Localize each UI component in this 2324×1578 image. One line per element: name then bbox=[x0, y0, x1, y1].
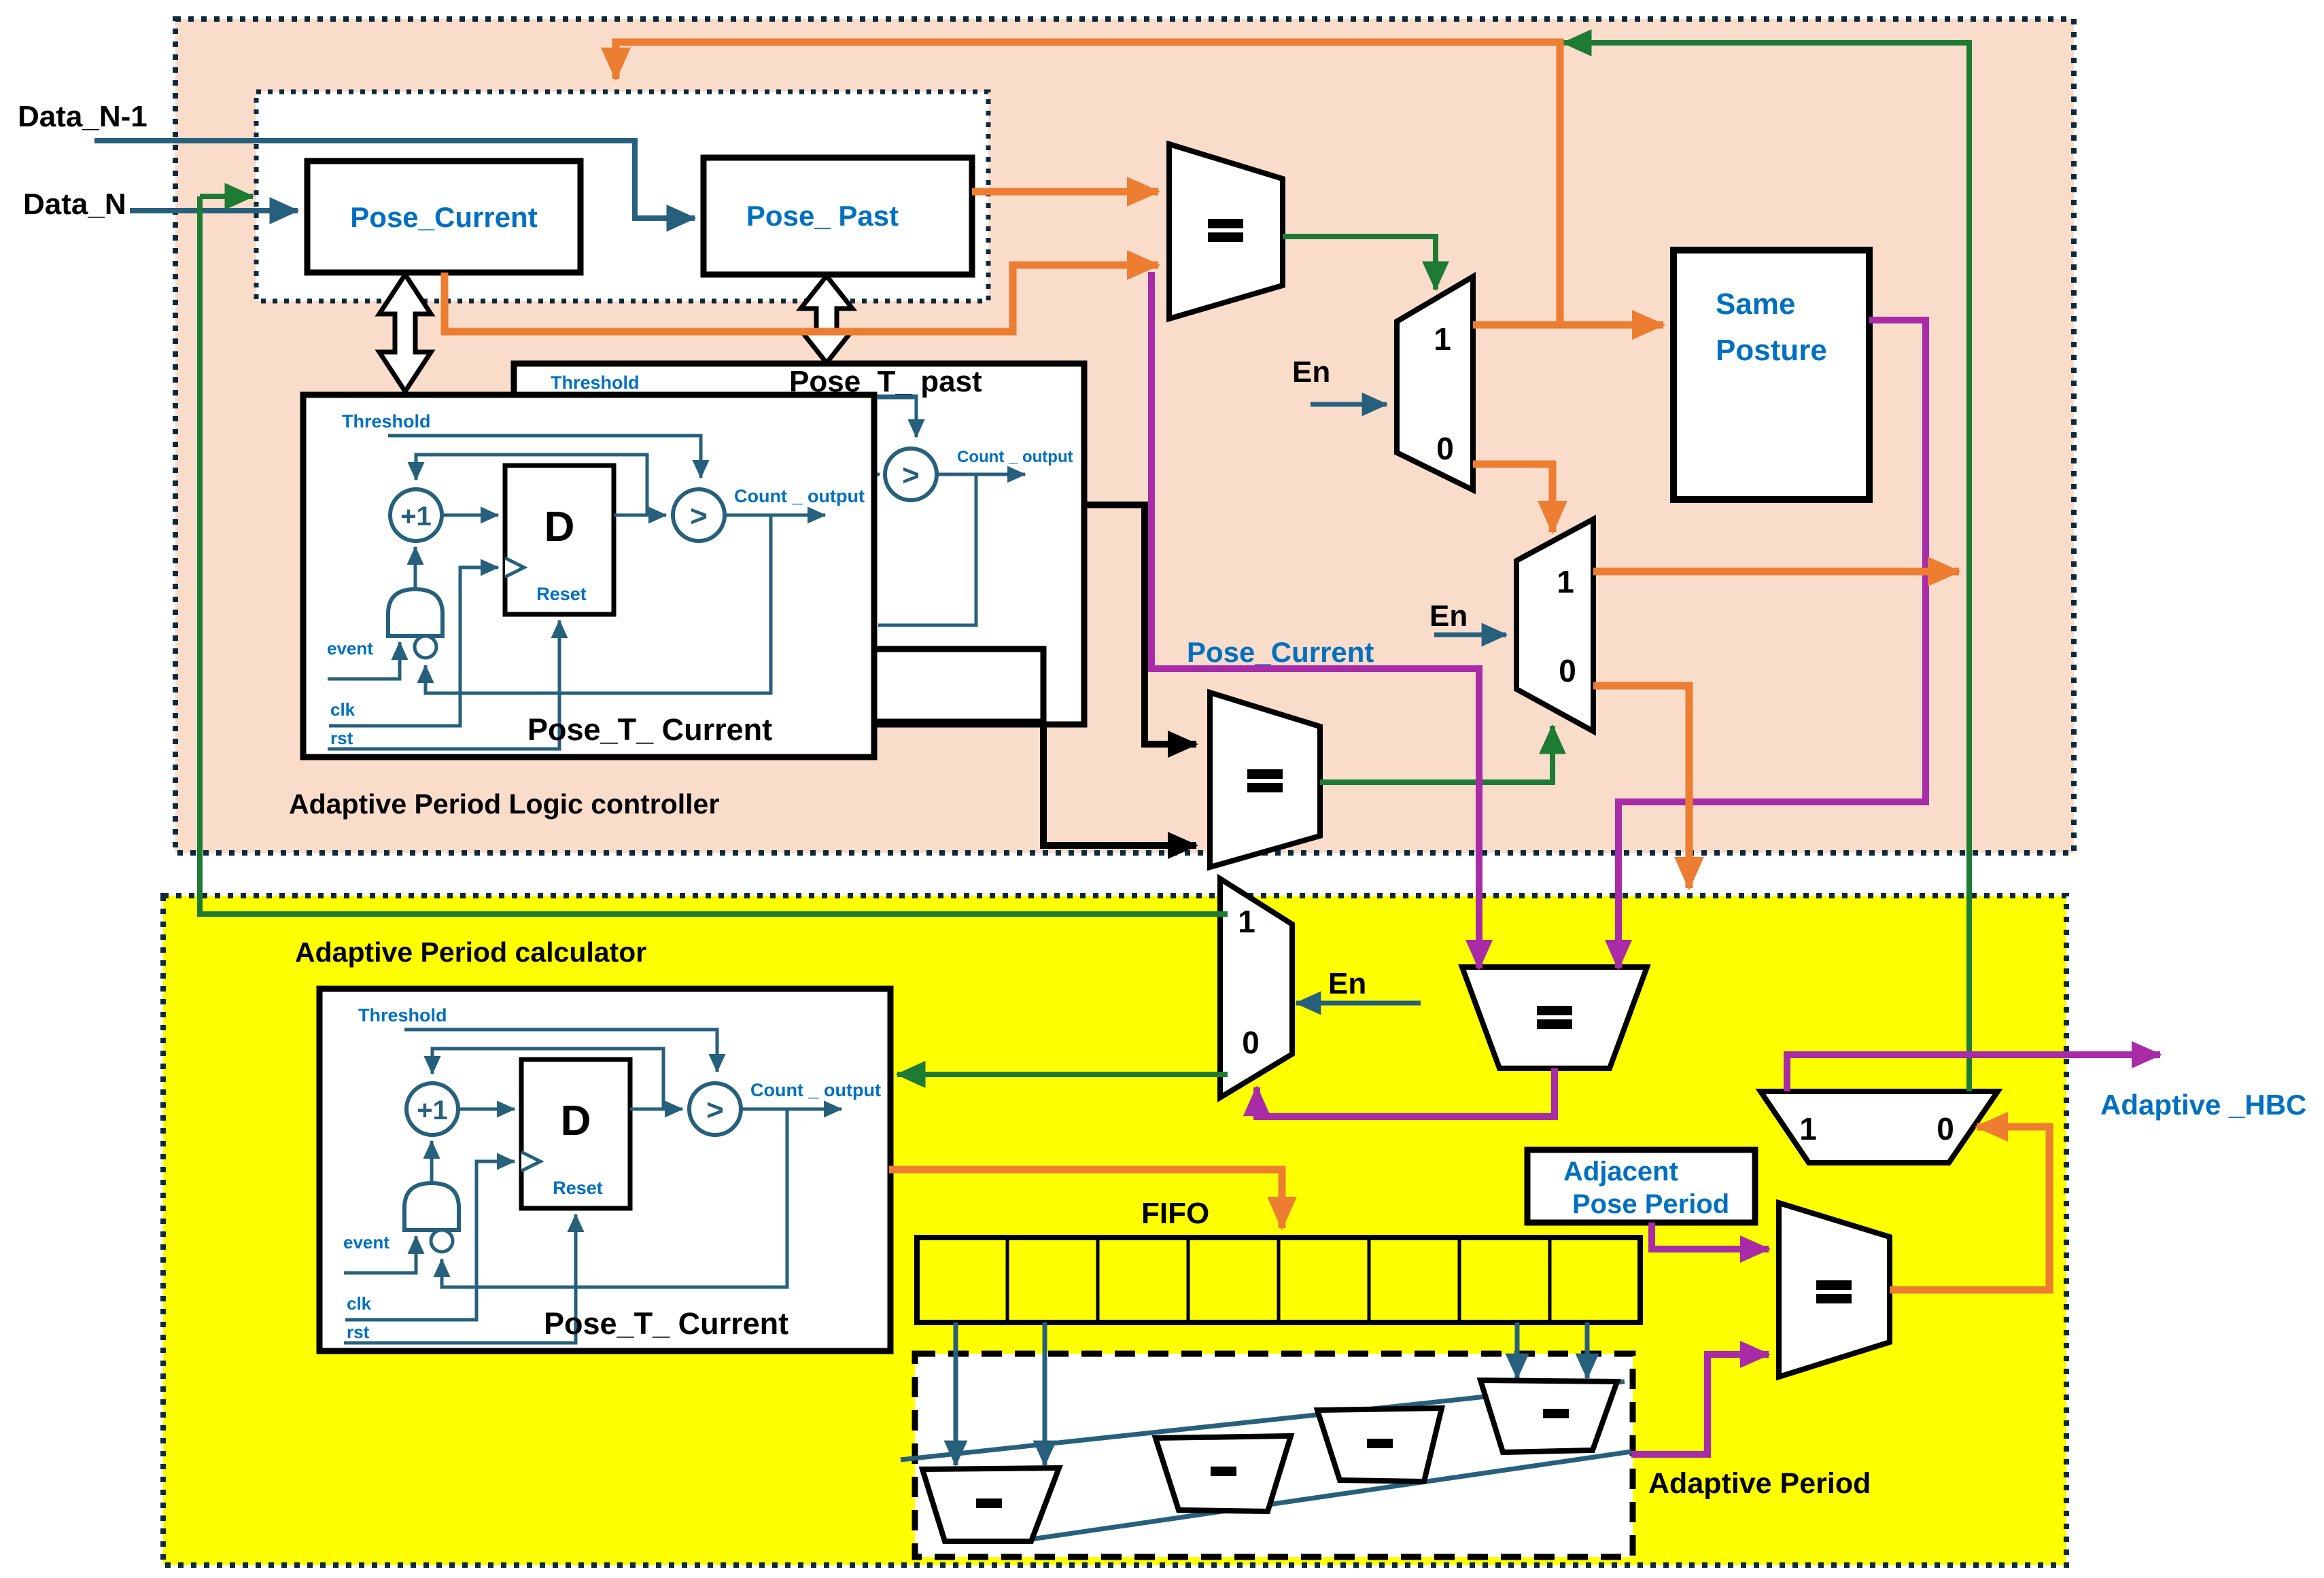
comparator EQ2 bbox=[1210, 692, 1320, 867]
comparator EQ3 bbox=[1462, 967, 1647, 1068]
counter subcircuit Pose_T_Current (calculator) bbox=[319, 989, 890, 1351]
wire threshold Pose_T_past visible segment bbox=[877, 398, 916, 437]
wire Same Posture to EQ3 (purple) bbox=[1618, 320, 1926, 968]
svg-text:0: 0 bbox=[1559, 653, 1576, 688]
svg-text:1: 1 bbox=[1557, 564, 1574, 599]
wire FIFO tap8 to SUB4 bbox=[1585, 1322, 1590, 1378]
svg-text:Count _ output: Count _ output bbox=[957, 448, 1073, 466]
wire FIFO tap1 to SUB1 bbox=[954, 1322, 958, 1465]
wire Data_N to Pose_Current bbox=[130, 208, 298, 213]
wire counter to FIFO (orange) bbox=[889, 1170, 1282, 1228]
svg-text:>: > bbox=[902, 459, 920, 492]
label minus SUB2 bbox=[1211, 1467, 1236, 1476]
label equals EQ3 bbox=[1537, 1006, 1572, 1015]
wire Pose_Current to EQ3 (purple) bbox=[1151, 272, 1479, 968]
svg-text:1: 1 bbox=[1434, 321, 1451, 357]
svg-text:Same: Same bbox=[1716, 287, 1795, 321]
comparator EQ4 bbox=[1779, 1203, 1890, 1377]
wire count feedback Pose_T_past bbox=[878, 474, 976, 625]
label minus SUB1 bbox=[976, 1498, 1002, 1508]
wire mux M1 output 1 to Same Posture (orange) bbox=[1473, 321, 1663, 329]
subtractor SUB2 bbox=[1156, 1436, 1291, 1511]
svg-text:Adaptive Period: Adaptive Period bbox=[1648, 1467, 1871, 1500]
wire top feedback loop (orange) bbox=[616, 42, 1560, 325]
FIFO register bbox=[917, 1238, 1640, 1322]
wire En to mux M2 bbox=[1434, 633, 1506, 637]
svg-text:Adaptive Period Logic controll: Adaptive Period Logic controller bbox=[289, 788, 719, 820]
wire Pose_T_past to comparator EQ2 input A bbox=[1084, 505, 1196, 744]
svg-text:En: En bbox=[1429, 599, 1468, 633]
svg-text:En: En bbox=[1328, 967, 1366, 1000]
svg-text:FIFO: FIFO bbox=[1141, 1197, 1209, 1230]
wire feedback right green bbox=[1563, 43, 1969, 1091]
mux M1 bbox=[1397, 277, 1473, 490]
wire EQ4 to mux M4 (orange) bbox=[1890, 1127, 2049, 1290]
register Pose_Current bbox=[307, 161, 580, 273]
subtractor SUB1 bbox=[922, 1468, 1059, 1541]
svg-text:Pose_Current: Pose_Current bbox=[1187, 636, 1374, 668]
comparator EQ1 bbox=[1169, 144, 1283, 319]
block Adaptive Period (dashed) bbox=[915, 1354, 1633, 1557]
wire FIFO tap2 to SUB1 bbox=[1043, 1322, 1047, 1465]
wire Data_N down to mux M3 input 1 (green) bbox=[200, 196, 1228, 914]
label minus SUB3 bbox=[1367, 1439, 1393, 1448]
hidden counter box partially covered bbox=[639, 649, 1043, 722]
label equals EQ2 bbox=[1247, 769, 1283, 779]
svg-text:1: 1 bbox=[1799, 1111, 1817, 1146]
svg-text:En: En bbox=[1292, 355, 1330, 389]
counter subcircuit Pose_T_Current (controller) bbox=[303, 395, 874, 757]
subtractor SUB3 bbox=[1317, 1408, 1442, 1481]
mux M2 bbox=[1516, 519, 1593, 731]
wire Pose_Current to EQ1 input B (orange) bbox=[445, 265, 1158, 332]
wire into gt-circle Pose_T_past bbox=[873, 473, 880, 476]
wire FIFO tap7 to SUB4 bbox=[1515, 1322, 1520, 1378]
svg-text:Posture: Posture bbox=[1716, 334, 1827, 367]
svg-text:Data_N: Data_N bbox=[23, 188, 126, 221]
wire En to mux M1 bbox=[1311, 402, 1387, 407]
mux M3 bbox=[1220, 879, 1292, 1098]
block Adaptive Period calculator (yellow dotted region) bbox=[163, 896, 2066, 1565]
svg-text:Pose Period: Pose Period bbox=[1572, 1189, 1729, 1219]
svg-text:0: 0 bbox=[1436, 431, 1454, 466]
wire subtract chain lower bbox=[1026, 1452, 1631, 1540]
svg-text:Threshold: Threshold bbox=[551, 372, 640, 393]
wire count_output Pose_T_past bbox=[938, 473, 1025, 476]
wire mux M2 output 0 to calculator (orange) bbox=[1593, 686, 1689, 888]
inner dotted sub-block pose registers bbox=[256, 92, 988, 301]
comparator gt-circle Pose_T_past bbox=[885, 449, 937, 500]
wire mux M4 output Adaptive_HBC (purple) bbox=[1787, 1055, 2160, 1091]
wire hidden box to comparator EQ2 input B bbox=[1043, 722, 1196, 845]
wire EQ1 output to mux M1 (green) bbox=[1283, 236, 1436, 290]
wire Data_N tap into register block (green) bbox=[200, 194, 253, 199]
register Same Posture bbox=[1673, 250, 1869, 499]
svg-text:1: 1 bbox=[1238, 904, 1255, 939]
wire EQ2 output to mux M2 (green) bbox=[1320, 726, 1553, 782]
wire mux M1 output 0 to mux M2 (orange) bbox=[1473, 464, 1553, 532]
label equals EQ4 bbox=[1816, 1280, 1852, 1290]
register Pose_Past bbox=[704, 158, 972, 275]
wire Pose_Past to EQ1 input A (orange) bbox=[972, 188, 1158, 196]
wire SUB4 output to EQ4 (purple) bbox=[1631, 1354, 1769, 1454]
double arrow connector Pose_Past to Pose_T_past bbox=[801, 276, 852, 363]
svg-text:Pose_Current: Pose_Current bbox=[350, 201, 537, 233]
wire subtract chain upper bbox=[901, 1382, 1625, 1460]
mux M4 bbox=[1761, 1091, 1998, 1163]
label minus SUB4 bbox=[1543, 1409, 1569, 1418]
wire threshold to gt-circle Pose_T_past bbox=[639, 396, 916, 437]
counter box Pose_T_past bbox=[514, 364, 1084, 724]
svg-text:Adjacent: Adjacent bbox=[1563, 1157, 1678, 1187]
wire Data_N-1 to Pose_Past bbox=[94, 141, 695, 218]
wire EQ3 output to mux M3 (purple) bbox=[1257, 1068, 1555, 1117]
wire En to mux M3 bbox=[1296, 1001, 1421, 1006]
register Adjacent Pose Period bbox=[1527, 1150, 1755, 1223]
svg-text:Adaptive _HBC: Adaptive _HBC bbox=[2100, 1089, 2306, 1121]
double arrow connector Pose_Current to Pose_T_Current bbox=[379, 275, 431, 391]
svg-text:0: 0 bbox=[1937, 1111, 1954, 1146]
svg-text:Pose_ Past: Pose_ Past bbox=[746, 200, 899, 232]
wire Adjacent Pose Period to EQ4 (purple) bbox=[1652, 1223, 1769, 1249]
wire mux M2 output 1 (orange) bbox=[1593, 568, 1959, 576]
svg-text:Adaptive Period calculator: Adaptive Period calculator bbox=[295, 936, 646, 968]
subtractor SUB4 bbox=[1480, 1380, 1617, 1452]
wire mux M3 output 0 to counter (green) bbox=[897, 1072, 1228, 1077]
label equals EQ1 bbox=[1208, 219, 1243, 228]
block Adaptive Period Logic controller (pink dotted region) bbox=[175, 19, 2074, 853]
svg-text:0: 0 bbox=[1242, 1025, 1260, 1060]
svg-text:Data_N-1: Data_N-1 bbox=[18, 100, 148, 133]
